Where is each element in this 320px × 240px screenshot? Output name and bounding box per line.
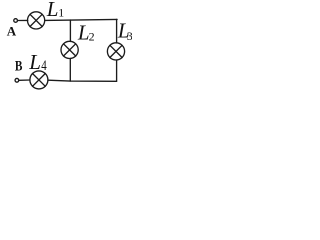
- wire L4 to B: [19, 79, 30, 81]
- svg-text:3: 3: [127, 29, 132, 43]
- label L4: [28, 50, 47, 74]
- wire L3 branch top: [116, 19, 118, 43]
- lamp L3: [107, 43, 124, 60]
- svg-text:L: L: [28, 50, 41, 74]
- terminal B: [15, 78, 19, 82]
- svg-text:A: A: [7, 23, 17, 38]
- svg-text:1: 1: [58, 5, 64, 19]
- label L1: [46, 0, 64, 21]
- wire L2 branch top: [69, 20, 71, 41]
- label L2: [77, 20, 95, 44]
- wire L3 branch bottom: [116, 60, 118, 81]
- terminal A: [14, 19, 18, 23]
- wire L2 branch bottom: [69, 59, 71, 82]
- svg-text:B: B: [15, 57, 23, 74]
- lamp L1: [27, 12, 44, 29]
- wire A to L1: [18, 19, 28, 21]
- wire L1 to top-right corner: [45, 19, 117, 20]
- wire bottom: [48, 80, 116, 81]
- lamp L4: [30, 71, 48, 89]
- svg-text:2: 2: [89, 29, 95, 43]
- label L3: [117, 19, 133, 44]
- lamp L2: [61, 41, 78, 58]
- svg-text:4: 4: [41, 56, 47, 73]
- svg-text:L: L: [46, 0, 59, 21]
